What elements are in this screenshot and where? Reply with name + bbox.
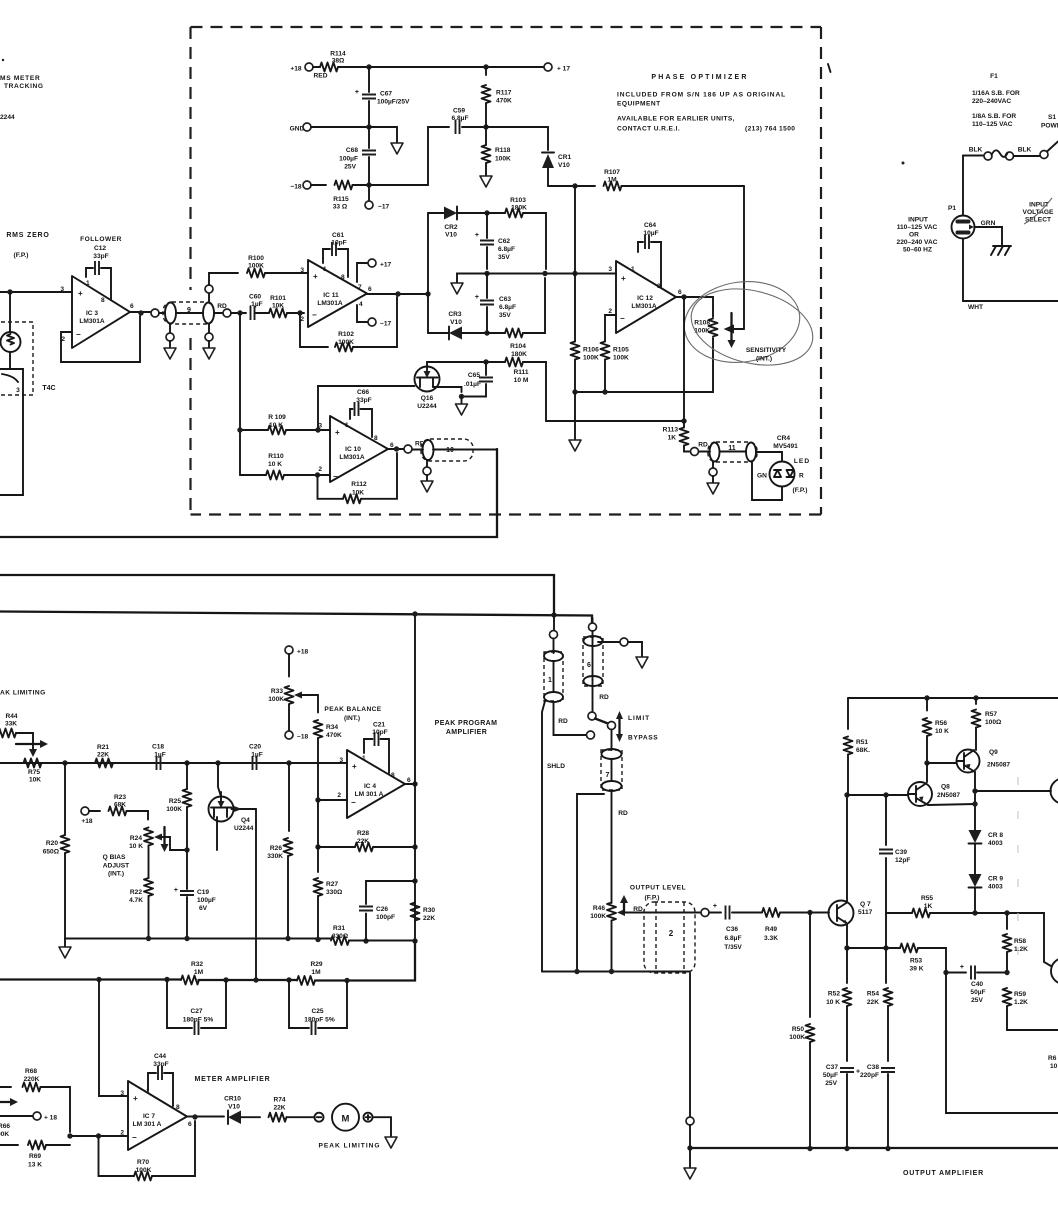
resistor R109 10K: [237, 414, 330, 435]
svg-text:+: +: [475, 232, 479, 239]
svg-text:P1: P1: [948, 205, 956, 212]
dashed frame PHASE OPTIMIZER box: [191, 27, 822, 515]
connector J9: [159, 302, 214, 324]
node R20: [62, 760, 67, 765]
wire connector7 down to R46: [611, 791, 613, 903]
svg-text:4: 4: [359, 301, 363, 308]
svg-text:1/8A S.B. FOR: 1/8A S.B. FOR: [972, 113, 1016, 120]
svg-text:R106: R106: [583, 347, 599, 354]
svg-text:Q 7: Q 7: [860, 901, 871, 908]
svg-text:−: −: [351, 798, 356, 807]
ground pin left of connector 9: [164, 324, 176, 359]
svg-text:AK LIMITING: AK LIMITING: [0, 690, 46, 697]
node R56 to Q9 base and Q8 collector: [924, 760, 956, 782]
svg-text:650Ω: 650Ω: [43, 849, 60, 856]
svg-text:1/16A S.B. FOR: 1/16A S.B. FOR: [972, 90, 1020, 97]
svg-text:68K.: 68K.: [856, 747, 870, 754]
svg-text:110–125 VAC: 110–125 VAC: [972, 121, 1013, 128]
svg-text:R104: R104: [510, 343, 526, 350]
ground bus y938: [65, 936, 415, 942]
text PHASE OPTIMIZER: [651, 74, 748, 81]
svg-text:+: +: [475, 294, 479, 301]
svg-text:R30: R30: [423, 907, 435, 914]
svg-text:C27: C27: [190, 1008, 202, 1015]
svg-text:100K: 100K: [166, 806, 182, 813]
svg-text:R69: R69: [29, 1153, 41, 1160]
terminal connector2 lower: [686, 1117, 694, 1148]
svg-text:4003: 4003: [988, 884, 1003, 891]
svg-text:220–240 VAC: 220–240 VAC: [897, 239, 938, 246]
svg-text:CR3: CR3: [448, 311, 462, 318]
ground symbol GND rail: [391, 143, 403, 154]
connector J6: [583, 618, 603, 712]
text T4C: [42, 385, 55, 392]
svg-text:LM 301 A: LM 301 A: [355, 791, 384, 798]
node C20 output: [286, 760, 291, 765]
text PEAK LIMITING fragment: [0, 690, 46, 697]
svg-text:3: 3: [318, 423, 322, 430]
text R60 fragment right edge: [1048, 1055, 1058, 1070]
svg-text:OUTPUT LEVEL: OUTPUT LEVEL: [630, 885, 686, 892]
svg-text:180pF 5%: 180pF 5%: [183, 1017, 214, 1024]
svg-text:CR2: CR2: [444, 224, 458, 231]
svg-text:22K: 22K: [273, 1105, 285, 1112]
svg-text:1K: 1K: [924, 903, 933, 910]
svg-text:BLK: BLK: [969, 147, 983, 154]
text RD below connector 7: [618, 810, 628, 817]
terminal IC3 output circle: [151, 309, 159, 317]
svg-text:1K: 1K: [668, 435, 677, 442]
capacitor C59 6.8uF: [452, 108, 489, 135]
svg-text:C38: C38: [867, 1064, 879, 1071]
svg-text:OR: OR: [909, 232, 919, 239]
svg-text:100µF: 100µF: [339, 156, 358, 163]
svg-text:(INT.): (INT.): [344, 715, 360, 722]
wire GND rail: [311, 124, 397, 143]
potentiometer R24 10K: [129, 828, 187, 879]
svg-text:6: 6: [368, 286, 372, 293]
svg-text:R6: R6: [1048, 1055, 1057, 1062]
capacitor C27 180pF 5%: [167, 980, 226, 1036]
transistor Q10 partial at right edge: [1051, 779, 1058, 804]
diode CR8 4003: [969, 830, 1004, 874]
text INCLUDED FROM S/N 186 UP AS ORIGINAL EQUIPMENT: [617, 92, 786, 108]
terminal +17 IC11: [357, 259, 392, 282]
resistor R106 100K: [571, 274, 600, 393]
resistor R70 100K feedback: [99, 1121, 196, 1181]
wire jog -18 rail up to C59: [428, 127, 449, 185]
wire IC12 pin2 jog: [605, 315, 616, 341]
svg-text:C59: C59: [453, 108, 465, 115]
transistor Q7 5117: [829, 901, 873, 926]
svg-text:TRACKING: TRACKING: [4, 83, 44, 90]
wire y421 line from R111 corner to R113 node: [546, 418, 687, 423]
arrow R66 annotation: [0, 1098, 18, 1106]
svg-text:C37: C37: [826, 1064, 838, 1071]
svg-text:11: 11: [728, 445, 736, 452]
terminal connector2 output: [701, 909, 709, 917]
svg-text:2N5087: 2N5087: [987, 762, 1010, 769]
svg-text:Q8: Q8: [941, 784, 950, 791]
svg-text:5117: 5117: [858, 909, 873, 916]
connector J2: [644, 902, 701, 973]
resistor R66 and +18 terminal: [0, 1112, 57, 1138]
svg-text:CR10: CR10: [224, 1096, 241, 1103]
svg-text:R105: R105: [613, 347, 629, 354]
svg-text:6V: 6V: [199, 905, 208, 912]
transistor Q11 partial at right edge: [1051, 958, 1058, 984]
switch limit/bypass: [587, 712, 616, 750]
capacitor C62 6.8uF 35V: [475, 213, 515, 269]
svg-text:AVAILABLE FOR EARLIER UNITS,: AVAILABLE FOR EARLIER UNITS,: [617, 116, 735, 123]
svg-text:R57: R57: [985, 711, 997, 718]
arrow R75 annotation: [16, 740, 48, 748]
wire IC12 pin3 line: [487, 271, 616, 276]
text METER AMPLIFIER: [195, 1076, 271, 1083]
diode CR2 V10: [428, 207, 490, 239]
svg-text:2: 2: [608, 308, 612, 315]
arrows limit/bypass: [616, 711, 623, 742]
svg-text:R46: R46: [593, 905, 605, 912]
svg-text:WHT: WHT: [968, 304, 983, 311]
svg-text:RD: RD: [633, 906, 643, 913]
text F1 fuse ratings: [972, 73, 1020, 128]
svg-text:100K: 100K: [613, 355, 629, 362]
diode CR3 V10: [428, 311, 490, 340]
svg-text:+: +: [313, 272, 318, 281]
svg-text:R53: R53: [910, 958, 922, 965]
terminal -17 IC11: [357, 305, 392, 328]
wire R55 line to edge transistor: [975, 910, 1051, 966]
svg-text:LM301A: LM301A: [631, 303, 657, 310]
svg-text:3: 3: [60, 286, 64, 293]
ground below C65: [456, 394, 468, 415]
resistor R68 220K: [0, 1068, 70, 1132]
resistor R32 1M: [181, 961, 204, 985]
resistor R30 22K: [411, 903, 436, 923]
svg-text:3: 3: [300, 267, 304, 274]
op-amp IC3 LM301A: [60, 276, 134, 348]
svg-text:CONTACT U.R.E.I.: CONTACT U.R.E.I.: [617, 126, 680, 133]
resistor R57 100ohm: [972, 698, 1003, 750]
text RD below connector 6: [599, 694, 609, 701]
svg-text:S1: S1: [1048, 114, 1056, 121]
text RD: [217, 303, 227, 310]
svg-text:8: 8: [391, 772, 395, 779]
svg-text:RD: RD: [618, 810, 628, 817]
svg-text:+18: +18: [297, 649, 309, 656]
wire SHLD down to output ground bus: [542, 701, 565, 972]
svg-text:00K: 00K: [0, 1131, 9, 1138]
svg-text:100K: 100K: [583, 355, 599, 362]
wire bus to IC7 pin3: [99, 980, 128, 1097]
capacitor C38 220pF: [860, 1064, 895, 1149]
text RMS ZERO (F.P.): [6, 232, 49, 259]
svg-text:PHASE OPTIMIZER: PHASE OPTIMIZER: [651, 74, 748, 81]
svg-text:220–240VAC: 220–240VAC: [972, 98, 1011, 105]
svg-text:PEAK PROGRAM: PEAK PROGRAM: [435, 720, 498, 727]
svg-text:C12: C12: [94, 245, 106, 252]
wire connector2 right column down: [689, 973, 691, 1117]
resistor R44 33K: [0, 713, 37, 757]
svg-text:R44: R44: [5, 713, 17, 720]
svg-text:C26: C26: [376, 906, 388, 913]
terminal IC10 output: [404, 441, 425, 454]
bottom bus of patch section: [542, 969, 690, 974]
text AVAILABLE FOR EARLIER UNITS CONTACT UREI: [617, 116, 795, 133]
terminal R113 to connector 11: [691, 442, 708, 456]
svg-text:(F.P.): (F.P.): [793, 487, 808, 494]
svg-text:C63: C63: [499, 296, 511, 303]
svg-text:LM 301 A: LM 301 A: [133, 1121, 162, 1128]
svg-text:V10: V10: [445, 232, 457, 239]
wire IC4 output node: [405, 781, 418, 786]
svg-text:Q4: Q4: [241, 817, 250, 824]
svg-text:MS METER: MS METER: [0, 75, 40, 82]
potentiometer R46 100K output level: [590, 903, 646, 972]
text FOLLOWER: [80, 236, 122, 243]
text PEAK BALANCE (INT.): [324, 706, 381, 722]
text BLK labels: [969, 147, 1032, 154]
svg-text:+ 17: + 17: [557, 66, 570, 73]
wire R106 column top: [574, 186, 576, 274]
svg-text:Q16: Q16: [421, 395, 434, 402]
svg-text:100K: 100K: [268, 696, 284, 703]
svg-text:SELECT: SELECT: [1025, 217, 1051, 224]
svg-text:6: 6: [587, 662, 591, 669]
svg-text:RD: RD: [599, 694, 609, 701]
resistor R20 650ohm: [43, 763, 70, 939]
text PEAK LIMITING: [318, 1143, 380, 1150]
svg-text:6: 6: [678, 289, 682, 296]
op-amp IC10 LM301A: [318, 416, 394, 482]
svg-text:6: 6: [188, 1121, 192, 1128]
svg-text:R31: R31: [333, 925, 345, 932]
node Q4: [215, 760, 220, 765]
switch S1 power: [1040, 142, 1058, 159]
svg-text:+: +: [78, 289, 83, 298]
svg-text:10K: 10K: [352, 490, 364, 497]
terminal GND: [290, 123, 311, 133]
resistor R49 3.3K: [732, 908, 829, 942]
svg-text:R74: R74: [273, 1097, 285, 1104]
svg-text:8: 8: [374, 435, 378, 442]
wire R111 line: [427, 359, 505, 364]
node C62/C63 junction and ground stub: [451, 271, 490, 294]
svg-text:R49: R49: [765, 926, 777, 933]
svg-text:C67: C67: [380, 91, 392, 98]
resistor R101 10K: [255, 295, 304, 318]
svg-text:100Ω: 100Ω: [985, 719, 1002, 726]
svg-text:ADJUST: ADJUST: [103, 863, 129, 870]
scan artifact dashed line: [1017, 777, 1019, 967]
svg-text:1: 1: [631, 266, 635, 273]
resistor R107 1M: [548, 169, 744, 191]
resistor R26 330K: [267, 763, 292, 939]
capacitor C61 10pF feedback: [323, 232, 348, 277]
text S1 POWER: [1041, 114, 1058, 130]
capacitor C26 100pF: [359, 881, 415, 944]
wire connector1 to bypass contact: [554, 702, 587, 735]
svg-text:V10: V10: [228, 1104, 240, 1111]
wire IC4 output column: [412, 611, 417, 943]
svg-text:180pF 5%: 180pF 5%: [304, 1017, 335, 1024]
resistor R31 330ohm: [331, 925, 349, 945]
svg-text:22K: 22K: [867, 999, 879, 1006]
svg-text:1.2K: 1.2K: [1014, 946, 1028, 953]
svg-text:−: −: [76, 330, 81, 339]
svg-text:9: 9: [187, 307, 191, 314]
node IC3 output: [130, 310, 151, 315]
transistor Q4 U2244 FET: [209, 763, 257, 850]
op-amp IC12 LM301A: [608, 261, 682, 333]
svg-text:SENSITIVITY: SENSITIVITY: [746, 347, 787, 354]
svg-text:2: 2: [669, 929, 674, 938]
svg-text:3: 3: [16, 387, 20, 394]
capacitor C67 100uF/25V: [355, 67, 410, 127]
resistor R27 330ohm: [314, 847, 344, 941]
svg-text:R111: R111: [513, 369, 528, 376]
wire Q7 emitter down: [844, 924, 849, 951]
resistor R56 10K: [923, 698, 950, 763]
svg-text:AMPLIFIER: AMPLIFIER: [446, 729, 487, 736]
node IC11 pin2: [297, 310, 302, 315]
svg-text:+: +: [960, 964, 964, 971]
svg-text:+ 18: + 18: [44, 1115, 57, 1122]
svg-text:100K: 100K: [338, 339, 354, 346]
svg-text:IC 3: IC 3: [86, 310, 98, 317]
svg-text:22K: 22K: [423, 915, 435, 922]
svg-text:7: 7: [606, 772, 610, 779]
svg-text:33pF: 33pF: [93, 253, 108, 260]
svg-text:8: 8: [101, 297, 105, 304]
svg-text:R108: R108: [694, 320, 710, 327]
svg-text:R25: R25: [169, 798, 181, 805]
wire bus y614: [0, 612, 592, 624]
svg-text:C65: C65: [468, 372, 480, 379]
ground arrow main bus: [59, 939, 71, 959]
svg-text:6.8µF: 6.8µF: [498, 246, 515, 253]
wire Q4 right column down to feedback bus: [255, 809, 257, 980]
capacitor C39 12pF: [879, 795, 910, 948]
capacitor C44 33pF feedback: [148, 1053, 173, 1106]
svg-text:T/35V: T/35V: [724, 944, 742, 951]
ground after meter: [385, 1137, 397, 1148]
resistor R29 1M: [297, 961, 323, 985]
resistor R103 180K: [487, 197, 546, 269]
wire GRN to chassis ground: [975, 227, 1003, 246]
mark small dot: [902, 162, 905, 165]
svg-text:Q9: Q9: [989, 749, 998, 756]
svg-text:R32: R32: [191, 961, 203, 968]
svg-text:R28: R28: [357, 830, 369, 837]
svg-text:R23: R23: [114, 794, 126, 801]
text PEAK PROGRAM AMPLIFIER: [435, 720, 498, 736]
svg-text:(F.P.): (F.P.): [645, 895, 660, 902]
svg-text:330Ω: 330Ω: [326, 889, 343, 896]
op-amp IC4 LM301A: [337, 750, 411, 818]
capacitor C66 33pF feedback: [350, 389, 372, 437]
wire connector1 column top: [550, 612, 558, 653]
terminal -18: [290, 181, 311, 191]
resistor R51 68K: [844, 698, 871, 795]
svg-text:1: 1: [323, 266, 327, 273]
svg-text:RMS ZERO: RMS ZERO: [6, 232, 49, 239]
svg-text:LM301A: LM301A: [79, 318, 105, 325]
svg-text:EQUIPMENT: EQUIPMENT: [617, 101, 661, 108]
text INPUT voltage block: [897, 217, 938, 254]
svg-text:C62: C62: [498, 238, 510, 245]
resistor R58 1.2K: [1003, 913, 1029, 973]
svg-text:POWER: POWER: [1041, 123, 1058, 130]
svg-text:C44: C44: [154, 1053, 166, 1060]
svg-text:R66: R66: [0, 1123, 10, 1130]
capacitor C20 1uF: [249, 744, 263, 771]
wire IC7 pin2 line: [67, 1133, 128, 1138]
text U2244 fragment: [0, 114, 15, 121]
svg-text:(213) 764 1500: (213) 764 1500: [745, 126, 795, 133]
svg-text:R51: R51: [856, 739, 868, 746]
resistor R53 39K: [847, 944, 946, 973]
node IC7 output: [187, 1114, 224, 1119]
wire IC3 pin2 feedback loop: [61, 316, 140, 362]
svg-text:1M: 1M: [311, 969, 321, 976]
svg-text:C68: C68: [346, 147, 358, 154]
svg-text:INPUT: INPUT: [908, 217, 928, 224]
resistor R110 10K: [240, 453, 330, 480]
svg-text:50–60 HZ: 50–60 HZ: [903, 247, 932, 254]
svg-text:R117: R117: [496, 90, 512, 97]
svg-text:OUTPUT AMPLIFIER: OUTPUT AMPLIFIER: [903, 1170, 984, 1177]
resistor R50 100K: [789, 913, 814, 1149]
text Q BIAS ADJUST (INT.): [103, 854, 130, 878]
svg-text:C20: C20: [249, 744, 261, 751]
svg-text:C39: C39: [895, 849, 907, 856]
svg-text:LM301A: LM301A: [317, 300, 343, 307]
svg-text:100K: 100K: [789, 1034, 805, 1041]
svg-text:Q BIAS: Q BIAS: [103, 854, 126, 861]
svg-text:10pF: 10pF: [331, 240, 346, 247]
resistor R59 1.2K: [1003, 988, 1058, 1030]
svg-text:R 109: R 109: [268, 414, 286, 421]
text RD below connector 1: [558, 718, 568, 725]
text OUTPUT AMPLIFIER: [903, 1170, 984, 1177]
terminal +18: [290, 63, 327, 80]
svg-text:10: 10: [1050, 1063, 1058, 1070]
resistor R55 1K: [886, 895, 978, 918]
svg-text:FOLLOWER: FOLLOWER: [80, 236, 122, 243]
transformer T4C box: [0, 369, 23, 495]
svg-text:470K: 470K: [326, 732, 342, 739]
svg-text:(INT.): (INT.): [108, 871, 124, 878]
potentiometer R108 100K: [694, 319, 744, 337]
resistor R111 10M: [505, 358, 546, 422]
wire IC4 pin2: [315, 797, 347, 802]
node IC10 output: [388, 446, 404, 451]
terminal -17: [365, 185, 390, 211]
svg-text:IC 11: IC 11: [323, 292, 339, 299]
wire connector7 bottom to ground bus: [577, 794, 604, 972]
svg-text:R58: R58: [1014, 938, 1026, 945]
ground pin right of connector 9: [203, 324, 215, 359]
svg-text:T4C: T4C: [42, 385, 55, 392]
svg-text:25V: 25V: [825, 1080, 837, 1087]
svg-text:U2244: U2244: [417, 403, 437, 410]
capacitor C36 6.8uF T/35V: [709, 903, 742, 951]
svg-text:BLK: BLK: [1018, 147, 1032, 154]
ground pin below connector 11: [707, 462, 719, 494]
svg-text:R100: R100: [248, 255, 264, 262]
